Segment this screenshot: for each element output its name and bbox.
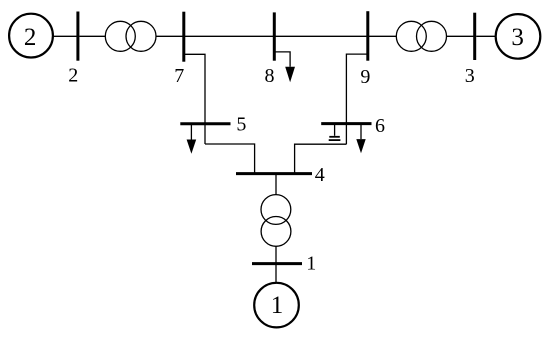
load at bus 8 arrow bbox=[285, 67, 295, 83]
generator G3 bbox=[496, 14, 541, 59]
bus 9 bbox=[366, 11, 369, 61]
wire bus 9 to bus 6 (line 9-6) bbox=[346, 54, 367, 144]
svg-text:7: 7 bbox=[174, 65, 184, 87]
wire bus 2 to transformer T2 bbox=[79, 35, 105, 37]
bus 8 bbox=[273, 12, 276, 60]
bus 7 bbox=[182, 12, 185, 62]
bus 2 bbox=[76, 12, 79, 61]
svg-text:4: 4 bbox=[315, 164, 325, 186]
generator G2 bbox=[9, 14, 53, 58]
wire bus 1 to generator G1 bbox=[275, 264, 277, 283]
load at bus 6 wire bbox=[360, 125, 362, 140]
load at bus 5 wire bbox=[190, 125, 192, 140]
svg-text:6: 6 bbox=[375, 115, 385, 137]
load at bus 8 wire bbox=[274, 52, 290, 67]
shunt capacitor at bus 6 stem bbox=[334, 125, 336, 136]
svg-text:2: 2 bbox=[24, 24, 37, 51]
svg-text:3: 3 bbox=[465, 65, 475, 87]
svg-text:5: 5 bbox=[236, 114, 246, 136]
wire T2 to bus 7 bbox=[156, 35, 184, 37]
shunt capacitor plate bottom bbox=[329, 139, 341, 141]
transformer T1 bbox=[261, 195, 291, 225]
transformer T3 bbox=[396, 21, 426, 51]
shunt capacitor plate top bbox=[329, 136, 340, 138]
generator G1 bbox=[254, 283, 299, 328]
bus 1 bbox=[252, 262, 302, 265]
svg-text:1: 1 bbox=[271, 292, 284, 319]
wire bus 5 to bus 4 (line 5-4) bbox=[205, 144, 255, 173]
wire bus 3 to generator G3 bbox=[476, 35, 496, 37]
wire bus 6 to bus 4 (line 6-4) bbox=[295, 144, 347, 172]
wire bus 7 to bus 5 (line 7-5) bbox=[184, 54, 205, 144]
wire T1 to bus 1 bbox=[275, 246, 277, 263]
load at bus 6 arrow bbox=[356, 139, 365, 153]
bus 6 bbox=[321, 122, 371, 125]
bus 3 bbox=[473, 13, 476, 60]
bus 4 bbox=[236, 172, 312, 175]
svg-text:2: 2 bbox=[68, 64, 78, 86]
wire bus 7 to bus 8 to bus 9 (line 7-8-9) bbox=[184, 35, 397, 37]
bus 5 bbox=[180, 122, 230, 125]
svg-text:3: 3 bbox=[511, 24, 524, 51]
load at bus 5 arrow bbox=[187, 140, 197, 154]
svg-text:1: 1 bbox=[306, 253, 316, 275]
svg-text:9: 9 bbox=[360, 66, 370, 88]
transformer T2 bbox=[105, 21, 135, 51]
wire bus 4 to transformer T1 bbox=[275, 175, 277, 195]
wire G2 to bus 2 bbox=[53, 35, 77, 37]
wire T3 to bus 3 bbox=[447, 35, 475, 37]
svg-text:8: 8 bbox=[265, 65, 275, 87]
